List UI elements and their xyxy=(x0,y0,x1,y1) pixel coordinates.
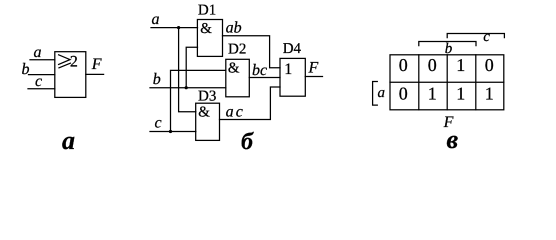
svg-text:D1: D1 xyxy=(198,2,216,18)
wire input a (part b) xyxy=(151,27,198,29)
svg-text:1: 1 xyxy=(428,83,437,103)
junction node b (part b) xyxy=(185,86,188,89)
gate D2 body xyxy=(226,59,250,97)
gate function symbol >=2 strokes xyxy=(59,55,70,65)
wire input b (part b) xyxy=(150,87,226,89)
wire D3 output ac to D4 xyxy=(220,87,281,120)
wire D2 output bc to D4 xyxy=(249,77,280,79)
svg-text:c: c xyxy=(483,29,490,45)
junction node a (part b) xyxy=(177,26,180,29)
svg-text:&: & xyxy=(228,61,240,77)
svg-text:&: & xyxy=(200,21,212,37)
svg-text:a: a xyxy=(152,11,160,28)
table column line 3 xyxy=(475,55,477,110)
svg-text:F: F xyxy=(91,56,102,73)
svg-text:ab: ab xyxy=(226,19,242,36)
svg-text:1: 1 xyxy=(456,83,465,103)
wire output F (part a) xyxy=(86,73,104,75)
svg-text:2: 2 xyxy=(70,53,78,70)
table row line xyxy=(390,81,504,83)
svg-text:b: b xyxy=(153,71,161,88)
majority gate body (part a) xyxy=(55,52,86,98)
svg-text:0: 0 xyxy=(399,83,408,103)
svg-text:1: 1 xyxy=(485,83,494,103)
svg-text:c: c xyxy=(35,73,42,90)
table column line 1 xyxy=(418,55,420,110)
svg-text:б: б xyxy=(241,129,254,153)
junction node c (part b) xyxy=(169,130,172,133)
wire input c (part b) xyxy=(150,131,196,133)
table column line 2 xyxy=(446,55,448,110)
svg-text:b: b xyxy=(445,41,453,57)
bracket b over columns 2-3 xyxy=(419,42,476,46)
svg-text:&: & xyxy=(198,105,210,121)
bracket c over columns 3-4 xyxy=(447,34,504,38)
svg-text:F: F xyxy=(308,60,319,77)
svg-text:1: 1 xyxy=(456,55,465,75)
svg-text:1: 1 xyxy=(284,61,292,78)
wire b to D1 xyxy=(186,47,197,87)
svg-text:а: а xyxy=(62,126,75,153)
svg-text:c: c xyxy=(155,115,162,132)
svg-text:0: 0 xyxy=(485,55,494,75)
wire output F (part b) xyxy=(305,76,322,78)
bracket a for row 2 xyxy=(373,82,378,106)
svg-text:0: 0 xyxy=(428,55,437,75)
svg-text:b: b xyxy=(22,61,30,78)
svg-text:a: a xyxy=(378,85,386,101)
svg-text:bc: bc xyxy=(252,62,267,79)
gate D3 body xyxy=(196,103,220,140)
wire input a (part a) xyxy=(30,59,55,61)
gate D4 body xyxy=(280,58,305,96)
wire input b (part a) xyxy=(29,74,55,76)
wire D1 output ab to D4 xyxy=(223,36,281,68)
truth table outer frame (part v) xyxy=(390,55,504,110)
wire input c (part a) xyxy=(28,88,55,90)
svg-text:D4: D4 xyxy=(283,41,302,57)
wire c to D2 xyxy=(171,70,226,131)
gate D1 body xyxy=(197,20,222,57)
svg-text:0: 0 xyxy=(399,55,408,75)
svg-text:D2: D2 xyxy=(228,42,246,58)
svg-text:D3: D3 xyxy=(198,89,216,105)
wire a to D3 xyxy=(179,28,196,112)
svg-text:в: в xyxy=(447,125,459,153)
svg-text:a: a xyxy=(34,44,42,61)
svg-text:ac: ac xyxy=(226,103,246,120)
